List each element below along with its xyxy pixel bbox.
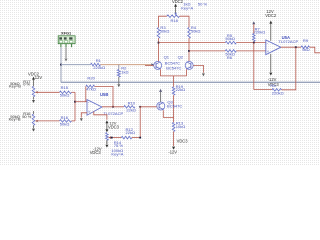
wire: to Q3 base (140, 106, 156, 108)
connector arrow above R7 (252, 21, 255, 24)
svg-text:BC547C: BC547C (167, 103, 182, 108)
svg-text:R10: R10 (128, 100, 136, 105)
potentiometer R14 (106, 133, 109, 141)
svg-text:BC547C: BC547C (166, 65, 181, 70)
wire: long horizontal net from XFG1 to right edge (61, 81, 320, 83)
svg-text:22kΩ: 22kΩ (126, 130, 136, 135)
svg-text:VDC3: VDC3 (177, 138, 189, 143)
svg-text:VDC3: VDC3 (108, 124, 120, 129)
svg-text:R6: R6 (227, 55, 233, 60)
wire: R1 to Q1 base (101, 64, 152, 66)
wire: output down (139, 107, 141, 138)
wire: XFG1 output vertical (60, 47, 62, 82)
wire: fb left (85, 86, 87, 101)
resistor R3 (157, 28, 160, 39)
wire: Q2 emitter (186, 69, 188, 76)
node R3/R5 (158, 42, 160, 44)
wire: U5A V+ pin (270, 23, 272, 40)
resistor R4 (188, 28, 191, 39)
svg-text:VDC3: VDC3 (90, 150, 102, 155)
svg-text:47kΩ: 47kΩ (86, 87, 96, 92)
wire: signal line to R1 (61, 64, 91, 66)
node R7 line (253, 42, 255, 44)
resistor R6 (225, 50, 236, 53)
wire: pot left to R3 (159, 16, 167, 27)
wire: U5A output (281, 46, 301, 48)
op-amp U5A (266, 40, 281, 55)
wire: R2 bottom (118, 77, 120, 84)
svg-text:R20: R20 (87, 76, 95, 81)
op-amp U5B (87, 100, 102, 116)
connector arrow into Q1 base (151, 63, 154, 66)
wire: R4 to Q2 collector (188, 38, 190, 61)
wire: emitter bar (160, 75, 186, 77)
wire: R3 to Q1 collector (158, 38, 160, 61)
wire: emitter drop (173, 76, 175, 87)
resistor R12 (121, 136, 132, 139)
power arrow VDC3 neg (172, 147, 175, 150)
wire: pot1 bottom (33, 97, 35, 100)
wire: feedback drop (253, 43, 255, 90)
svg-text:Q2: Q2 (178, 55, 184, 60)
resistor R5 (225, 41, 236, 44)
wire: Q1 emitter (159, 69, 161, 76)
wire: pot2 top stub (33, 111, 35, 114)
svg-text:+: + (88, 110, 91, 115)
wire: plus input line (189, 50, 225, 52)
wire: R2 top (118, 65, 120, 70)
svg-text:R1: R1 (96, 58, 102, 63)
svg-text:50kΩ: 50kΩ (191, 29, 201, 34)
svg-text:Key=A: Key=A (111, 152, 123, 157)
svg-text:TL072ACP: TL072ACP (278, 39, 298, 44)
node R12 end (139, 137, 141, 139)
power arrow R14 bottom (105, 145, 108, 148)
resistor R16b (60, 120, 72, 123)
wire: R6 to U5A plus (236, 50, 265, 52)
svg-text:220kΩ: 220kΩ (254, 30, 266, 35)
svg-text:R8: R8 (270, 83, 276, 88)
wire: fb right (95, 86, 113, 106)
node wiper (111, 137, 113, 139)
connector arrow above Q3 (159, 89, 162, 92)
node summing (74, 101, 76, 103)
wire: U5B output (102, 106, 124, 108)
svg-text:12V: 12V (35, 75, 43, 80)
svg-text:R15: R15 (61, 85, 69, 90)
wire: to U5B minus (75, 101, 87, 103)
svg-text:50kΩ: 50kΩ (160, 29, 170, 34)
svg-text:50kΩ: 50kΩ (225, 36, 235, 41)
transistor Q1 (154, 61, 162, 69)
wire: Q1 base (145, 64, 154, 66)
resistor R19 (172, 87, 175, 95)
wire: R15 to junction (72, 91, 76, 93)
resistor R9 (301, 46, 310, 49)
node R4/R6 (188, 50, 190, 52)
ground arrow below XFG1 (65, 59, 68, 62)
svg-text:Key=B: Key=B (9, 117, 21, 122)
wire: R19col to R13 (173, 117, 175, 122)
svg-text:Key=A: Key=A (181, 6, 193, 11)
wire: R16 to junction (72, 120, 76, 122)
resistor R13 (172, 122, 175, 131)
svg-text:1kΩ: 1kΩ (121, 69, 128, 74)
resistor R15 (60, 91, 72, 94)
wire: U5B plus to ground (81, 113, 87, 118)
wire: Q3 emitter (163, 110, 173, 117)
svg-text:50 %: 50 % (22, 114, 32, 119)
svg-text:9kΩ: 9kΩ (302, 47, 309, 52)
node output Q3base (139, 106, 141, 108)
ground arrow pot2 (32, 129, 35, 132)
svg-text:+: + (267, 49, 270, 54)
svg-text:U5B: U5B (100, 92, 108, 97)
svg-text:50kΩ: 50kΩ (60, 93, 70, 98)
svg-text:Key=B: Key=B (9, 84, 21, 89)
svg-text:VDC2: VDC2 (265, 13, 277, 18)
transistor Q2 (185, 61, 193, 69)
node fb output (112, 106, 114, 108)
svg-text:R9: R9 (303, 38, 309, 43)
wire: Q2 base to ground corner (193, 65, 203, 72)
wire: R7 bottom (253, 41, 255, 42)
wire: R5 to U5A minus (236, 42, 265, 44)
svg-text:R18: R18 (171, 18, 179, 23)
power arrow U5B V- (105, 129, 108, 132)
svg-text:22kΩ: 22kΩ (126, 107, 136, 112)
wire: feedback to R8 (254, 89, 272, 91)
transistor Q3 (157, 102, 165, 110)
ground arrow U5B plus (80, 118, 83, 121)
power arrow U5B V+ (105, 120, 108, 123)
wire: R19 to emitter bar2 (173, 95, 175, 117)
wire: pot R14 bottom (106, 140, 108, 144)
ground arrow pot1 (32, 100, 35, 103)
background dot grid (0, 0, 320, 166)
node junction at XFG1 branch (60, 64, 62, 66)
svg-text:XFG1: XFG1 (61, 30, 72, 35)
resistor R10 (124, 106, 135, 109)
wire: output to right edge (310, 47, 320, 53)
ground arrow at Q2 base (202, 73, 205, 76)
svg-text:0 %: 0 % (23, 82, 30, 87)
wire: wiper to R12 (109, 136, 111, 139)
power arrow U5A V+ (269, 21, 272, 24)
power arrow U5A V- (269, 73, 272, 76)
resistor R1 (91, 63, 101, 66)
wire: R8 to output (282, 47, 296, 90)
function generator XFG1 (58, 36, 75, 47)
svg-text:50kΩ: 50kΩ (60, 121, 70, 126)
wire: R13 to VDC3 (173, 132, 175, 147)
power arrow left VDC2 (32, 77, 35, 80)
potentiometer R17 (32, 86, 35, 97)
resistor R20 (86, 85, 95, 88)
resistor R7 (253, 34, 256, 42)
wire: minus input line (159, 42, 226, 44)
svg-text:VDC2: VDC2 (172, 0, 184, 4)
wire: R12 to output drop (132, 137, 140, 139)
wire: summing vertical (74, 92, 76, 121)
ground arrow below R2 (117, 84, 120, 87)
svg-text:-12V: -12V (168, 149, 177, 154)
svg-text:220kΩ: 220kΩ (93, 65, 105, 70)
svg-text:Q1: Q1 (164, 55, 170, 60)
wire: pot right to R4 (180, 16, 190, 27)
resistor R8 (272, 89, 282, 92)
node output/R8 (295, 46, 297, 48)
svg-text:R16: R16 (61, 115, 69, 120)
wire: U5B V+ route (94, 111, 107, 119)
svg-text:22kΩ: 22kΩ (176, 87, 186, 92)
potentiometer R18 (167, 15, 180, 18)
wire: pot1 wiper (35, 91, 59, 93)
power arrow VDC2 (174, 4, 177, 7)
wire: pot2 wiper (35, 120, 59, 122)
svg-text:10kΩ: 10kΩ (176, 124, 186, 129)
svg-text:220kΩ: 220kΩ (272, 91, 284, 96)
wire: pot2 bottom (33, 125, 35, 128)
resistor R2 (117, 70, 120, 78)
svg-text:50 %: 50 % (198, 2, 208, 7)
wire: U5A V- pin (270, 54, 272, 72)
wire: XFG1 common terminal (65, 47, 67, 58)
potentiometer R16 (32, 114, 35, 125)
